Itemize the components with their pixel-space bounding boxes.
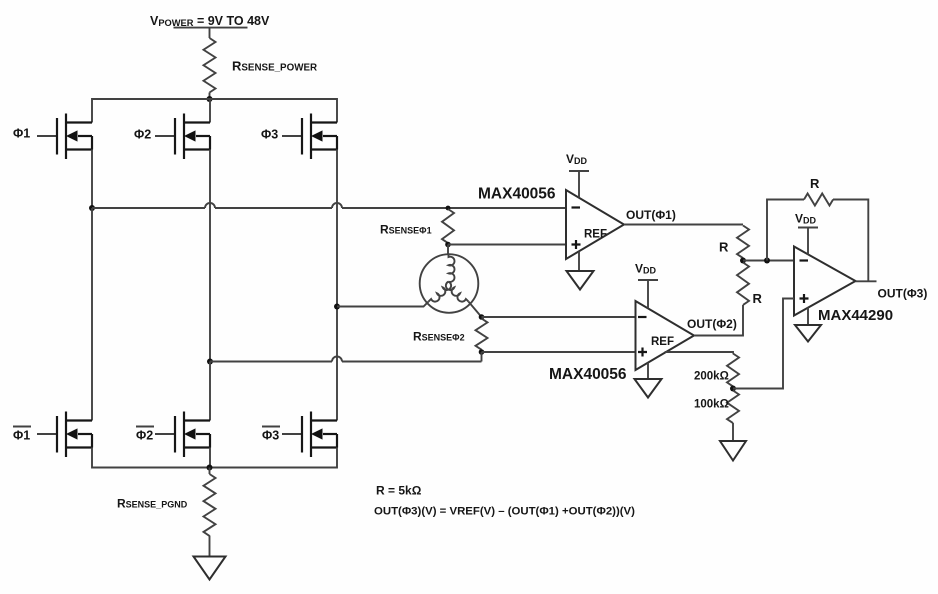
wire motor right terminal bbox=[469, 302, 482, 317]
svg-text:Φ3: Φ3 bbox=[261, 128, 278, 142]
resistor R2 sum bbox=[737, 263, 749, 305]
transistor Q phi3 bbox=[282, 114, 337, 160]
wire phi2bar drain column bbox=[209, 362, 211, 421]
label phi3bar bbox=[262, 427, 280, 443]
wire motor left terminal bbox=[337, 302, 429, 307]
svg-text:R: R bbox=[719, 240, 729, 255]
svg-text:RSENSEΦ1: RSENSEΦ1 bbox=[380, 223, 432, 237]
node phase2 column junction bbox=[207, 359, 213, 365]
wire phi1bar drain column bbox=[91, 208, 93, 421]
svg-text:RSENSE_POWER: RSENSE_POWER bbox=[232, 59, 317, 74]
node VPOWER label bbox=[150, 14, 270, 28]
wire minus input amp2 bbox=[482, 316, 636, 318]
transistor Q phi1bar bbox=[37, 412, 92, 458]
wire 100k to ground bbox=[732, 423, 734, 441]
svg-text:R = 5kΩ: R = 5kΩ bbox=[376, 484, 422, 498]
op-amp U3 MAX44290 bbox=[794, 247, 856, 316]
svg-text:RSENSEΦ2: RSENSEΦ2 bbox=[413, 330, 465, 344]
node feedback junction bbox=[764, 258, 770, 264]
svg-text:OUT(Φ1): OUT(Φ1) bbox=[626, 208, 676, 222]
node phase3 motor junction bbox=[334, 304, 340, 310]
svg-text:RSENSE_PGND: RSENSE_PGND bbox=[117, 497, 188, 511]
wire U2 to ground bbox=[647, 363, 649, 379]
wire phi2 phase column bbox=[209, 150, 211, 362]
wire top power rail bbox=[92, 99, 337, 123]
wire phi2 drain bbox=[209, 99, 211, 123]
transistor Q phi1 bbox=[37, 114, 92, 160]
svg-text:100kΩ: 100kΩ bbox=[694, 399, 729, 411]
op-amp U2 MAX40056 bbox=[636, 301, 695, 370]
resistor RSENSE_POWER bbox=[204, 38, 216, 93]
pin minus U2 bbox=[638, 316, 647, 318]
wire OUT phi2 bbox=[694, 305, 743, 336]
svg-text:REF: REF bbox=[651, 336, 674, 348]
wire U3 to ground bbox=[807, 307, 809, 325]
transistor Q phi2 bbox=[155, 114, 210, 160]
pin minus U3 bbox=[800, 259, 809, 261]
wire phase1 rail with hops bbox=[92, 207, 566, 209]
wire VPOWER to RSENSE_POWER bbox=[209, 28, 211, 38]
wire REF U1 to ground bbox=[578, 251, 580, 271]
wire rail to RSENSE_PGND bbox=[209, 468, 211, 475]
svg-text:MAX40056: MAX40056 bbox=[478, 186, 556, 203]
svg-text:OUT(Φ2): OUT(Φ2) bbox=[687, 317, 737, 331]
wire OUT phi1 bbox=[624, 224, 743, 226]
svg-text:Φ1: Φ1 bbox=[13, 429, 30, 443]
wire resistor to rail bbox=[209, 93, 211, 100]
wire summing node to minus U3 bbox=[743, 260, 794, 262]
svg-text:R: R bbox=[810, 176, 820, 191]
wire bottom source rail bbox=[92, 448, 337, 468]
svg-text:200kΩ: 200kΩ bbox=[694, 371, 729, 383]
node R1 R2 junction bbox=[740, 258, 746, 264]
wire hop phase2 over phi3 column bbox=[332, 357, 342, 362]
resistor RSENSE_phi2 bbox=[476, 319, 488, 350]
wire phase2 horizontal bbox=[210, 361, 482, 363]
wire plus input amp2 bbox=[482, 351, 636, 353]
node RSENSE_phi2 bottom bbox=[479, 349, 485, 355]
svg-text:Φ2: Φ2 bbox=[134, 128, 151, 142]
resistor R feedback bbox=[804, 194, 833, 206]
svg-text:MAX44290: MAX44290 bbox=[818, 307, 893, 324]
ground U1 bbox=[567, 271, 594, 290]
label phi1bar bbox=[13, 427, 31, 443]
wire feedback up bbox=[767, 200, 804, 261]
wire phi2bar source bbox=[209, 448, 211, 468]
wire hop over phi3 column bbox=[332, 203, 342, 208]
node power rail junction bbox=[207, 96, 213, 102]
svg-text:REF: REF bbox=[584, 229, 607, 241]
node RSENSE_phi1 bottom bbox=[445, 242, 451, 248]
node RSENSE_phi1 top bbox=[446, 206, 451, 211]
wire plus input amp1 bbox=[448, 244, 566, 246]
resistor RSENSE_PGND bbox=[204, 474, 216, 536]
wire phi3 phase column bbox=[336, 150, 338, 421]
ground U3 bbox=[795, 325, 821, 342]
op-amp U1 MAX40056 bbox=[566, 190, 624, 259]
svg-text:Φ3: Φ3 bbox=[262, 429, 279, 443]
wire phase2 link down bbox=[481, 352, 483, 362]
svg-text:Φ1: Φ1 bbox=[13, 127, 30, 141]
wire feedback to output bbox=[833, 200, 868, 282]
svg-text:OUT(Φ3): OUT(Φ3) bbox=[878, 287, 928, 301]
motor winding left bbox=[429, 282, 452, 302]
svg-text:VDD: VDD bbox=[635, 262, 657, 276]
svg-text:OUT(Φ3)(V) = VREF(V) – (OUT(Φ1: OUT(Φ3)(V) = VREF(V) – (OUT(Φ1) +OUT(Φ2)… bbox=[374, 506, 635, 518]
power VDD U2 bbox=[635, 262, 658, 309]
node pgnd junction bbox=[207, 465, 213, 471]
pin plus U2 bbox=[638, 348, 647, 357]
svg-text:MAX40056: MAX40056 bbox=[549, 366, 627, 383]
node phase1 rail left bbox=[89, 205, 95, 211]
svg-text:VDD: VDD bbox=[566, 152, 588, 166]
svg-text:R: R bbox=[753, 291, 763, 306]
motor winding top bbox=[449, 255, 455, 282]
label phi2bar bbox=[136, 427, 154, 443]
wire phi1 source to phase1 rail bbox=[91, 150, 93, 209]
ground power ground bbox=[194, 557, 226, 580]
resistor 200k bbox=[727, 354, 739, 387]
svg-text:Φ2: Φ2 bbox=[136, 429, 153, 443]
svg-text:VPOWER = 9V TO 48V: VPOWER = 9V TO 48V bbox=[150, 14, 270, 28]
power VDD U1 bbox=[566, 152, 589, 198]
resistor RSENSE_phi1 bbox=[442, 209, 454, 243]
svg-text:VDD: VDD bbox=[795, 212, 817, 226]
node divider bbox=[730, 386, 736, 392]
ground U2 bbox=[635, 379, 662, 398]
wire RSENSE_PGND to ground bbox=[209, 536, 211, 557]
wire REF U2 to divider bbox=[665, 352, 733, 354]
wire motor top lead bbox=[447, 245, 449, 255]
transistor Q phi3bar bbox=[282, 412, 337, 458]
pin plus U3 bbox=[800, 294, 809, 303]
resistor 100k bbox=[727, 391, 739, 424]
motor M circle bbox=[420, 254, 479, 313]
motor winding right bbox=[446, 282, 469, 302]
power VDD U3 bbox=[795, 212, 818, 255]
resistor R1 sum bbox=[737, 226, 749, 259]
ground divider bbox=[720, 441, 746, 461]
pin minus U1 bbox=[572, 206, 581, 208]
wire OUT phi3 bbox=[856, 280, 877, 282]
wire hop over phi2 column bbox=[205, 203, 215, 208]
pin plus U1 bbox=[572, 240, 581, 249]
transistor Q phi2bar bbox=[155, 412, 210, 458]
node RSENSE_phi2 top bbox=[479, 314, 485, 320]
wire divider to plus U3 bbox=[733, 299, 794, 389]
